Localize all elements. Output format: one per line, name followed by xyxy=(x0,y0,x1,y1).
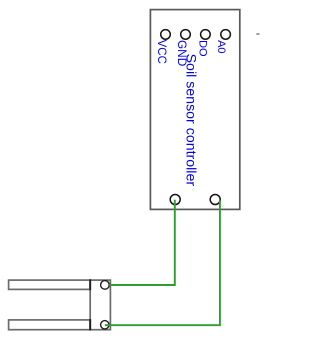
svg-text:A0: A0 xyxy=(215,40,227,53)
wire W1: probe pad A to controller terminal T1 xyxy=(109,200,175,285)
wire W2: probe pad B to controller terminal T2 xyxy=(105,200,220,325)
soil probe header body xyxy=(90,280,110,330)
prong P1 end cap xyxy=(89,279,91,290)
pin GND pad xyxy=(181,30,191,40)
controller board U1 (Soil sensor controller) xyxy=(150,10,239,210)
probe pad B (bottom) xyxy=(101,321,109,329)
prong P2 end cap xyxy=(89,319,91,330)
soil probe prong P2 (bottom) xyxy=(9,320,91,330)
bottom terminal T1 (left) on controller xyxy=(170,195,180,205)
bottom terminal T2 (right) on controller xyxy=(210,195,220,205)
probe pad A (top) xyxy=(101,281,110,290)
stray mark (small dash right of board) xyxy=(256,33,259,35)
pin VCC pad xyxy=(161,30,171,40)
soil probe prong P1 (top) xyxy=(9,280,91,289)
svg-text:Soil sensor controller: Soil sensor controller xyxy=(182,54,198,187)
svg-text:VCC: VCC xyxy=(155,40,167,64)
pin A0 pad xyxy=(221,30,231,40)
pin DO pad xyxy=(201,30,211,40)
